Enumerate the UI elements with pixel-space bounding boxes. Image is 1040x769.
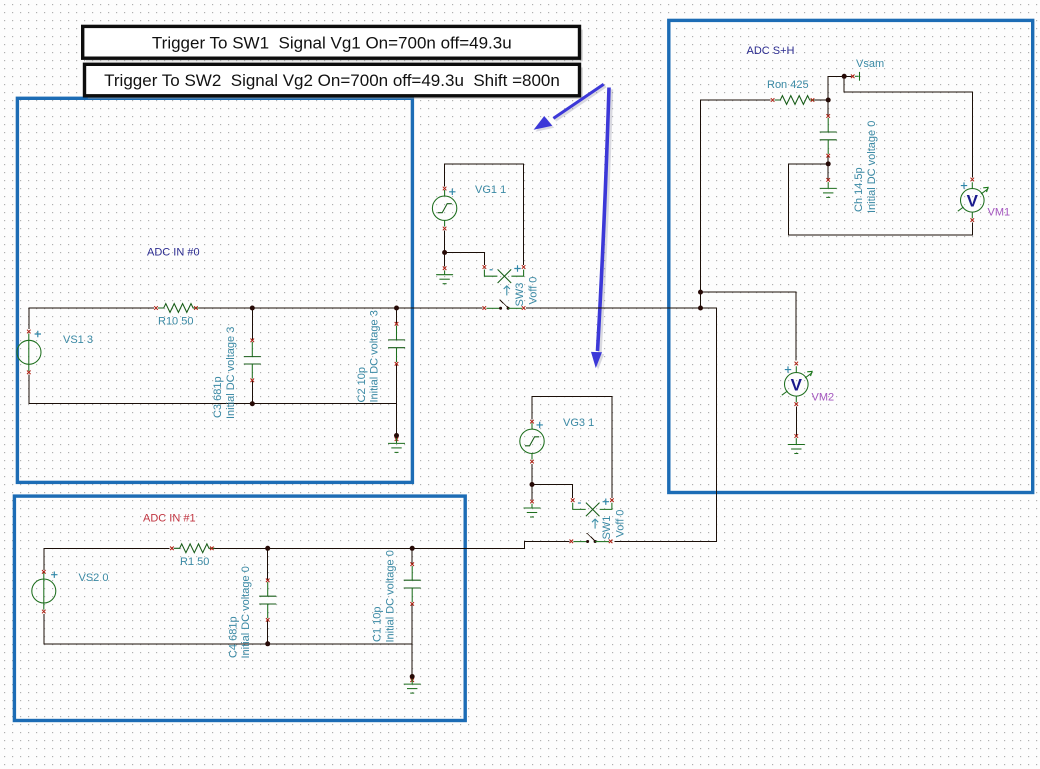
voltage source VS1 — [17, 330, 41, 374]
wire node B to SW3 left — [397, 307, 483, 309]
node dot S+H upper — [698, 290, 703, 295]
node dot C2 ground — [394, 433, 399, 438]
capacitor C4 — [259, 579, 276, 622]
node terminal Vsam — [851, 72, 860, 81]
wire Ch node to Vsam — [828, 76, 851, 100]
wire C1 top lead — [411, 548, 413, 564]
ground below VG1 — [436, 266, 453, 283]
wire C3 top lead — [251, 308, 253, 340]
wire Ch bottom to VM1 bottom — [789, 164, 973, 235]
ground below Ch — [820, 178, 837, 197]
node dot S+H lower — [698, 306, 703, 311]
node dot C3 bottom — [250, 401, 255, 406]
svg-text:C1 10p: C1 10p — [372, 607, 384, 642]
node dot VG3 junction — [530, 482, 535, 487]
svg-text:Initial DC voltage 0: Initial DC voltage 0 — [866, 121, 878, 213]
annotation box 2 — [85, 64, 580, 96]
wire junction to ground — [444, 253, 446, 267]
wire SW3 to S+H left node — [526, 307, 701, 309]
wire C2 bottom lead — [396, 364, 398, 436]
wire junction to SW1 left control — [532, 485, 573, 499]
ground below C2 — [388, 436, 405, 453]
blue arrow 2 — [591, 88, 609, 369]
svg-text:Initial DC voltage 3: Initial DC voltage 3 — [369, 310, 381, 402]
svg-text:SW3: SW3 — [514, 283, 526, 307]
svg-text:Initial DC voltage 3: Initial DC voltage 3 — [225, 327, 237, 419]
wire Ch top lead — [827, 100, 829, 116]
wire node to SW1 return — [614, 308, 716, 542]
switch SW1 — [570, 498, 614, 543]
svg-text:Ron 425: Ron 425 — [767, 79, 809, 91]
capacitor C2 — [388, 322, 405, 366]
node dot VG1 junction — [442, 250, 447, 255]
wire R1 to C4 — [214, 547, 268, 549]
wire junction to SW3 left control — [445, 253, 485, 265]
wire VG1 top loop — [445, 164, 524, 265]
blue arrow 1 shadow — [536, 86, 606, 132]
node dot C1 top — [410, 546, 415, 551]
node dot C4 top — [265, 546, 270, 551]
annotation box 1 — [83, 26, 580, 58]
svg-text:VS1 3: VS1 3 — [63, 334, 93, 346]
svg-text:Voff 0: Voff 0 — [528, 277, 540, 305]
ground below VM2 — [788, 434, 805, 453]
wire C4 bottom lead — [267, 620, 269, 644]
svg-text:V: V — [967, 192, 979, 211]
resistor Ron — [771, 96, 816, 105]
switch SW3 — [483, 265, 526, 310]
annotation box 1 shadow — [86, 30, 583, 62]
svg-text:VM2: VM2 — [812, 392, 835, 404]
svg-text:Vsam: Vsam — [856, 58, 884, 70]
resistor R10 — [154, 304, 199, 313]
wire VS1 bottom rail — [29, 374, 397, 403]
wire VG1 bottom to junction — [444, 231, 446, 253]
generator VG3 — [520, 420, 544, 464]
wire C3 bottom lead — [251, 380, 253, 403]
region box ADC S+H — [669, 20, 1033, 492]
region box ADC IN #0 — [17, 98, 412, 482]
wire VG3 bottom to junction — [531, 464, 533, 485]
svg-text:R10 50: R10 50 — [158, 316, 193, 328]
annotation box 2 shadow — [88, 68, 583, 100]
node dot Ch bottom — [826, 161, 831, 166]
voltmeter VM1 — [958, 178, 988, 222]
svg-text:VG3 1: VG3 1 — [563, 417, 594, 429]
wire C4 to C1 — [268, 547, 413, 549]
wire C1 bottom lead — [411, 604, 413, 677]
wire VG3 top loop — [532, 396, 612, 498]
ground below VG3 — [524, 500, 541, 517]
svg-text:R1 50: R1 50 — [180, 556, 209, 568]
wire junction to ground — [531, 485, 533, 500]
blue arrow 1 — [534, 84, 604, 130]
node dot C3 top — [250, 306, 255, 311]
wire Vsam to VM1 top — [844, 76, 972, 177]
capacitor C1 — [404, 562, 421, 605]
node dot C2 top — [394, 306, 399, 311]
svg-text:ADC S+H: ADC S+H — [747, 45, 795, 57]
svg-text:VM1: VM1 — [988, 207, 1011, 219]
wire R10 to node A — [198, 307, 252, 309]
svg-text:Initial DC voltage 0: Initial DC voltage 0 — [240, 566, 252, 658]
svg-text:Ch 14.5p: Ch 14.5p — [853, 167, 865, 212]
voltmeter VM2 — [782, 362, 812, 406]
node dot Ron junction — [826, 98, 831, 103]
wire S+H left vertical — [700, 100, 770, 308]
svg-text:Trigger To SW1 Signal Vg1 On=: Trigger To SW1 Signal Vg1 On=700n off=49… — [152, 33, 512, 52]
wire Ch bottom to ground — [827, 164, 829, 180]
node dot C1 ground — [410, 674, 415, 679]
svg-text:Voff 0: Voff 0 — [615, 510, 627, 538]
wire Ch bottom lead — [827, 156, 829, 164]
svg-text:VG1 1: VG1 1 — [475, 184, 506, 196]
wire VS2 bottom rail — [44, 614, 412, 644]
wire C1 to SW1 jog — [412, 542, 569, 549]
svg-text:C2 10p: C2 10p — [356, 367, 368, 402]
wire C4 top lead — [267, 548, 269, 580]
svg-text:Initial DC voltage 0: Initial DC voltage 0 — [384, 550, 396, 642]
wire VS1 top to R10 — [29, 308, 154, 329]
node dot C4 bottom — [265, 641, 270, 646]
svg-text:C3 681p: C3 681p — [212, 376, 224, 418]
svg-text:ADC IN #0: ADC IN #0 — [147, 247, 200, 259]
region box ADC IN #1 — [14, 496, 465, 720]
capacitor C3 — [244, 339, 261, 383]
wire VM2 to ground — [795, 406, 797, 436]
svg-text:ADC IN #1: ADC IN #1 — [143, 513, 196, 525]
svg-text:VS2 0: VS2 0 — [79, 572, 109, 584]
blue arrow 2 shadow — [593, 89, 611, 370]
wire node A to node B — [252, 307, 396, 309]
wire C2 top lead — [396, 308, 398, 324]
resistor R1 — [170, 544, 215, 553]
wire VS2 top to R1 — [44, 548, 170, 570]
generator VG1 — [432, 187, 456, 231]
node dot Vsam — [842, 74, 847, 79]
wire node to VM2 branch — [700, 292, 796, 361]
svg-text:SW1: SW1 — [601, 516, 613, 540]
voltage source VS2 — [32, 570, 58, 613]
wire Ron to Ch node — [815, 99, 829, 101]
svg-text:C4 681p: C4 681p — [227, 616, 239, 658]
svg-text:V: V — [791, 376, 803, 395]
capacitor Ch — [820, 114, 837, 157]
ground below C1 — [404, 677, 421, 694]
svg-text:Trigger To SW2 Signal Vg2 On=: Trigger To SW2 Signal Vg2 On=700n off=49… — [104, 71, 560, 90]
